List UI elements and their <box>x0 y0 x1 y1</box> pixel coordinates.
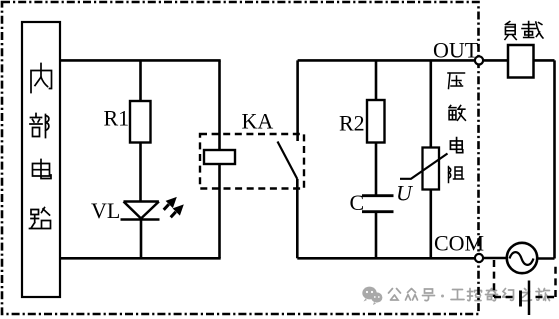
svg-text:OUT: OUT <box>433 38 479 63</box>
之 <box>520 289 532 301</box>
号 <box>423 289 435 301</box>
电 <box>450 138 462 153</box>
terminal COM <box>475 254 483 262</box>
wire LED to bottom rail <box>140 220 143 259</box>
varistor RV <box>423 148 440 190</box>
LED VL <box>121 202 160 220</box>
R2 branch top wire <box>375 60 378 100</box>
· <box>441 295 444 298</box>
capacitor C top plate <box>362 194 394 197</box>
wire R2 to capacitor <box>375 143 378 196</box>
relay coil KA <box>204 150 235 164</box>
控 <box>468 289 482 301</box>
负 <box>505 22 516 40</box>
coil branch upper wire <box>218 60 221 150</box>
right rail wire down <box>553 60 556 258</box>
svg-text:COM: COM <box>434 231 484 256</box>
dashed DC alternative path right <box>554 265 557 297</box>
svg-text:R2: R2 <box>339 111 365 136</box>
电 <box>33 160 52 179</box>
internal circuit box <box>22 22 60 297</box>
resistor R2 <box>367 100 385 143</box>
路 <box>30 208 51 229</box>
label 负载 <box>505 22 543 40</box>
coil branch lower wire <box>218 164 221 258</box>
LED light arrows <box>164 197 184 217</box>
wire capacitor to bottom rail <box>375 212 378 259</box>
contact bottom lead <box>296 179 299 258</box>
sine wave <box>510 252 534 265</box>
AC source G <box>507 243 537 273</box>
label 内部电路 <box>30 64 52 229</box>
奇 <box>486 289 498 301</box>
right block bottom rail to COM <box>297 257 475 260</box>
varistor branch top wire <box>429 60 432 147</box>
wire COM to source <box>484 257 506 260</box>
工 <box>451 290 464 300</box>
敏 <box>449 106 465 121</box>
node R1 top branch <box>139 60 142 101</box>
svg-text:KA: KA <box>242 109 274 134</box>
旅 <box>536 289 550 301</box>
众 <box>406 289 418 301</box>
bottom rail wire (internal box to coil branch) <box>59 257 221 260</box>
watermark text 公众号 · 工控奇幻之旅 <box>389 289 550 301</box>
load box <box>508 45 534 78</box>
right block top rail to OUT <box>298 59 475 62</box>
载 <box>522 22 543 39</box>
压 <box>448 73 465 89</box>
battery short plate <box>519 291 522 307</box>
幻 <box>503 289 514 301</box>
watermark icon <box>362 287 382 305</box>
battery long plate <box>528 281 531 316</box>
KA dashed frame <box>200 134 304 189</box>
svg-text:U: U <box>396 181 414 206</box>
label 压敏电阻 <box>448 73 465 183</box>
wire varistor to bottom rail <box>429 190 432 259</box>
内 <box>31 64 52 93</box>
svg-text:VL: VL <box>91 198 120 223</box>
svg-text:R1: R1 <box>104 106 130 131</box>
wire load to right rail <box>534 59 555 62</box>
公 <box>389 289 401 301</box>
wire R1 to LED <box>139 143 142 202</box>
capacitor C bottom plate <box>362 210 394 213</box>
top rail wire (internal box to coil branch) <box>59 59 221 62</box>
terminal OUT <box>475 56 483 64</box>
wire right rail to source <box>538 257 555 260</box>
resistor R1 <box>130 101 151 143</box>
contact blade <box>278 142 298 180</box>
wire OUT to load <box>484 59 508 62</box>
阻 <box>449 167 464 183</box>
contact top lead <box>296 60 299 141</box>
部 <box>30 114 49 138</box>
svg-text:C: C <box>350 190 365 215</box>
dashed DC alternative path bottom <box>494 296 556 299</box>
varistor diagonal stroke <box>400 154 448 179</box>
dashed DC alternative path left <box>493 260 496 297</box>
